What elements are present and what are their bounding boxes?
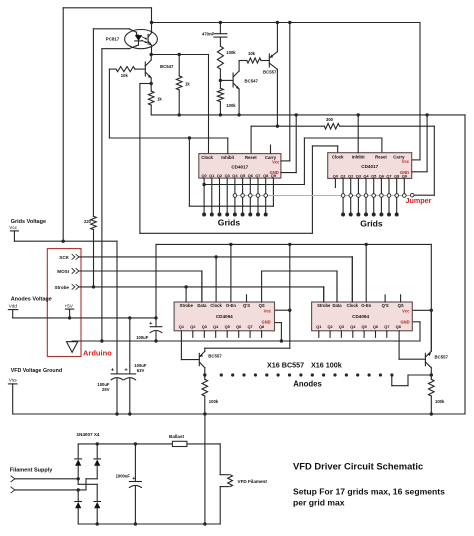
wire Strobe line: [79, 286, 324, 288]
svg-text:100uF: 100uF: [136, 335, 149, 340]
svg-text:Q7: Q7: [255, 173, 260, 178]
wire left CD4094 GND: [275, 322, 282, 324]
wire collector node to clock feed: [151, 54, 208, 56]
svg-text:VFD Filament: VFD Filament: [238, 479, 268, 484]
resistor R 100k lower: [217, 88, 223, 101]
pin no-connect circle: [364, 194, 368, 198]
IC U5 CD4094 right: [312, 302, 413, 331]
svg-text:Q9: Q9: [271, 173, 277, 178]
svg-text:O-En: O-En: [226, 303, 236, 308]
capacitor C5 1000uF: [134, 444, 136, 482]
wire grids voltage feed: [14, 240, 117, 242]
optocoupler U1 PC817: [125, 29, 158, 48]
svg-text:Reset: Reset: [375, 155, 387, 160]
pin no-connect circle: [372, 194, 376, 198]
svg-text:Anodes Voltage: Anodes Voltage: [11, 297, 52, 303]
svg-text:GND: GND: [400, 319, 409, 324]
svg-text:Q5: Q5: [361, 324, 367, 329]
wire right CD4094 top pins: [323, 287, 325, 302]
svg-text:100uF: 100uF: [134, 363, 147, 368]
wire MOSI line: [79, 270, 202, 272]
svg-text:63V: 63V: [137, 368, 145, 373]
resistor Ballast: [172, 441, 187, 446]
svg-text:100k: 100k: [226, 103, 236, 108]
wire reset line left CD4017: [251, 125, 324, 127]
svg-text:Strobe: Strobe: [180, 303, 194, 308]
svg-text:BC557: BC557: [263, 70, 277, 75]
svg-text:CD4017: CD4017: [231, 165, 248, 170]
svg-text:Q4: Q4: [363, 173, 369, 178]
svg-text:Vdd: Vdd: [9, 304, 18, 309]
svg-text:Q5: Q5: [371, 173, 377, 178]
svg-text:Q4: Q4: [350, 324, 356, 329]
wire Q9 feedback: [188, 138, 190, 206]
wire emitter feed to right CD4017 clock: [139, 84, 141, 234]
svg-text:Q3: Q3: [225, 173, 231, 178]
wire right CD4017 GND: [426, 115, 428, 172]
diode D2: [96, 444, 98, 459]
resistor R 220: [91, 216, 97, 229]
svg-text:Q2: Q2: [348, 173, 354, 178]
node inhibit-Q9 junction: [188, 136, 191, 139]
wire top-left supply loop: [63, 7, 151, 9]
svg-text:Q8: Q8: [394, 173, 400, 178]
IC Arduino box: [47, 249, 81, 357]
wire inhibit line: [109, 137, 227, 139]
node mid rail junctions: [178, 113, 181, 116]
svg-text:Q9: Q9: [402, 173, 408, 178]
svg-text:Q1: Q1: [340, 173, 346, 178]
svg-text:Setup For 17 grids max, 16 seg: Setup For 17 grids max, 16 segments: [293, 486, 445, 496]
svg-text:Q8: Q8: [396, 324, 402, 329]
node divider junction: [219, 79, 222, 82]
svg-text:Q5: Q5: [240, 173, 246, 178]
wire PC817 anode to 220R: [93, 28, 129, 30]
transistor Q5 BC557 right driver: [424, 353, 426, 365]
node bridge rail junctions: [96, 442, 99, 445]
resistor R 300: [324, 123, 339, 129]
svg-text:Vcc: Vcc: [402, 309, 410, 314]
svg-text:220: 220: [84, 219, 92, 224]
wire Arduino ground bus: [72, 340, 420, 342]
ground symbol Arduino: [67, 342, 78, 353]
transistor Q3 BC557: [268, 54, 270, 67]
transistor Q2 BC547: [220, 79, 233, 81]
inductor VFD filament coil: [228, 475, 233, 487]
svg-text:Q7: Q7: [384, 324, 389, 329]
wire SCK line: [79, 256, 353, 258]
capacitor C4 100uF logic: [155, 318, 157, 327]
svg-text:Q6: Q6: [236, 324, 242, 329]
wire PC817 cathode to Arduino ground: [102, 48, 129, 50]
svg-text:Q1: Q1: [209, 173, 215, 178]
wire anode bus jog: [391, 375, 393, 386]
wire right CD4017 grid outputs: [342, 178, 344, 214]
IC U3 CD4017 right: [328, 153, 412, 179]
svg-text:Q2: Q2: [190, 324, 196, 329]
wire Q1 to BC557 base: [180, 331, 182, 360]
node bottom rail junctions: [96, 522, 99, 525]
wire cascade QS to right Data: [261, 271, 263, 302]
svg-text:Q4: Q4: [213, 324, 219, 329]
pin no-connect circle: [233, 194, 237, 198]
svg-text:Q6: Q6: [248, 173, 254, 178]
pin no-connect circle: [264, 194, 268, 198]
svg-text:Q8: Q8: [259, 324, 265, 329]
wire Vss rail: [13, 413, 465, 415]
wire jumper riser: [433, 126, 435, 195]
pin no-connect circle: [357, 194, 361, 198]
svg-text:Ballast: Ballast: [169, 434, 185, 439]
svg-text:25V: 25V: [102, 387, 110, 392]
wire right CD4094 output stubs: [318, 331, 320, 338]
pin no-connect circle: [403, 194, 407, 198]
svg-text:MOSI: MOSI: [57, 269, 69, 274]
wire 10k to inhibit line: [108, 69, 110, 138]
svg-text:Clock: Clock: [332, 155, 344, 160]
node left collector junction: [203, 373, 206, 376]
wire Q0 to right reset: [202, 183, 205, 186]
wire bridge bottom rail: [78, 523, 220, 525]
svg-text:BC547: BC547: [245, 78, 259, 83]
wire jumper select line: [235, 195, 412, 197]
node right collector junction: [430, 373, 433, 376]
wire BC557 emitter feed: [205, 347, 290, 349]
svg-text:Q7: Q7: [247, 324, 252, 329]
capacitor C2 100uF 25V: [111, 373, 123, 375]
svg-text:Q1: Q1: [316, 324, 322, 329]
node 5V rail junctions: [229, 243, 232, 246]
wire right CD4017 inhibit: [357, 115, 359, 153]
wire PC817 collector to rail: [151, 23, 153, 31]
resistor R 10k base: [116, 67, 135, 72]
node cap 63V junction: [128, 316, 131, 319]
svg-text:1k: 1k: [157, 96, 162, 101]
wire left CD4017 Vcc: [289, 23, 291, 161]
node left strobe tap: [184, 285, 187, 288]
svg-text:Q3: Q3: [339, 324, 345, 329]
node left clock tap: [214, 255, 217, 258]
svg-text:Vcc: Vcc: [272, 159, 280, 164]
svg-text:per grid max: per grid max: [293, 498, 345, 508]
svg-text:Vcc: Vcc: [402, 159, 410, 164]
node right Vcc junction: [430, 309, 433, 312]
wire right edge rail: [464, 115, 466, 414]
node AC junctions: [77, 477, 80, 480]
wire AC input 2: [15, 489, 86, 491]
pin no-connect circle: [395, 194, 399, 198]
svg-text:Q6: Q6: [379, 173, 385, 178]
svg-text:Q6: Q6: [373, 324, 379, 329]
wire right CD4017 Q9 pin: [403, 178, 405, 193]
svg-text:100k: 100k: [209, 399, 219, 404]
svg-text:CD4094: CD4094: [352, 314, 369, 319]
svg-text:Inhibit: Inhibit: [352, 155, 365, 160]
svg-text:Grids: Grids: [218, 218, 241, 228]
wire carry stub: [270, 145, 272, 154]
svg-text:BC557: BC557: [435, 355, 449, 360]
svg-text:QS: QS: [259, 303, 265, 308]
wire right CD4017 Vcc riser: [419, 23, 421, 160]
transistor Q4 BC557 left driver: [198, 353, 200, 365]
wire filament feed: [219, 444, 221, 475]
svg-text:VFD Driver Circuit Schematic: VFD Driver Circuit Schematic: [293, 461, 423, 472]
wire Vdd line: [13, 317, 156, 319]
svg-text:Q1: Q1: [179, 324, 185, 329]
svg-text:CD4094: CD4094: [216, 314, 233, 319]
svg-text:Strobe: Strobe: [317, 303, 331, 308]
svg-text:Vss: Vss: [9, 377, 17, 382]
wire left CD4094 top pins: [185, 287, 187, 302]
node gnd bus junctions: [100, 339, 103, 342]
pin no-connect circle: [256, 194, 260, 198]
svg-text:Data: Data: [332, 303, 342, 308]
node left Vcc junction: [288, 309, 291, 312]
capacitor C3 100uF 63V: [129, 318, 131, 374]
wire left CD4094 output stubs: [192, 331, 194, 338]
svg-text:SCK: SCK: [59, 255, 69, 260]
wire grids voltage drop to Vss cap: [116, 241, 118, 374]
wire top Vcc rail: [152, 22, 421, 24]
diode D4: [94, 501, 101, 503]
resistor R 1k emitter: [150, 84, 152, 92]
svg-text:300: 300: [326, 117, 334, 122]
svg-text:PC817: PC817: [106, 37, 120, 42]
resistor R 1k pullup: [178, 55, 180, 76]
resistor R 100k right pulldown: [430, 375, 432, 379]
svg-text:Q8: Q8: [263, 173, 269, 178]
svg-text:Anodes: Anodes: [293, 380, 322, 389]
wire right CD4094 Vcc: [412, 309, 431, 311]
transistor Q1 BC547: [144, 62, 146, 76]
svg-text:Q2: Q2: [217, 173, 223, 178]
svg-text:O-En: O-En: [361, 303, 371, 308]
node 220R strobe junction: [92, 285, 95, 288]
svg-text:10k: 10k: [248, 51, 256, 56]
wire Vss to bridge negative: [204, 414, 206, 524]
node emitter junction: [150, 82, 153, 85]
capacitor C1 470nF: [219, 23, 221, 34]
svg-text:Clock: Clock: [201, 155, 213, 160]
svg-text:Filament Supply: Filament Supply: [10, 468, 53, 474]
IC U4 CD4094 left: [174, 302, 274, 331]
node 5V drop junction: [154, 316, 157, 319]
svg-text:Jumper: Jumper: [406, 196, 432, 205]
svg-text:Q'S: Q'S: [243, 303, 250, 308]
wire right CD4017 Q0 stub: [334, 178, 336, 187]
pin jumper terminal circle: [410, 193, 414, 197]
svg-text:Reset: Reset: [245, 155, 257, 160]
wire left CD4094 Vcc: [275, 309, 290, 311]
svg-text:100k: 100k: [226, 50, 236, 55]
svg-text:Clock: Clock: [347, 303, 359, 308]
svg-text:Strobe: Strobe: [54, 285, 69, 290]
svg-text:VFD Voltage Ground: VFD Voltage Ground: [11, 368, 62, 374]
pin no-connect circle: [341, 194, 345, 198]
svg-text:Data: Data: [197, 303, 207, 308]
node outer loop junction: [62, 240, 65, 243]
pin no-connect circle: [249, 194, 253, 198]
svg-text:1N4007 X4: 1N4007 X4: [77, 432, 100, 437]
diode D1: [77, 444, 79, 459]
wire mid rail: [151, 114, 465, 116]
svg-text:Q4: Q4: [232, 173, 238, 178]
node BC557 collector on reset line: [276, 125, 279, 128]
pin no-connect circle: [387, 194, 391, 198]
wire filament return: [220, 486, 229, 488]
svg-text:Vcc: Vcc: [9, 225, 17, 230]
svg-text:BC547: BC547: [160, 64, 174, 69]
svg-text:100k: 100k: [435, 399, 445, 404]
svg-text:Q0: Q0: [333, 173, 338, 178]
node collector junction: [150, 53, 153, 56]
wire left CD4017 GND: [295, 115, 297, 173]
pin no-connect circle: [380, 194, 384, 198]
node top rail junction: [150, 21, 153, 24]
node +5V junction: [68, 316, 71, 319]
svg-text:X16 BC557: X16 BC557: [267, 360, 304, 369]
svg-text:Q'S: Q'S: [382, 303, 389, 308]
svg-text:10k: 10k: [121, 73, 129, 78]
svg-text:Clock: Clock: [210, 303, 222, 308]
svg-text:Q2: Q2: [327, 324, 333, 329]
svg-text:100uF: 100uF: [97, 382, 110, 387]
wire left CD4017 clock drop: [208, 55, 210, 154]
svg-text:1k: 1k: [185, 82, 190, 87]
svg-text:Arduino: Arduino: [83, 349, 112, 358]
svg-text:Q7: Q7: [386, 173, 391, 178]
svg-text:+5V: +5V: [64, 303, 73, 308]
svg-text:Q3: Q3: [356, 173, 362, 178]
svg-text:CD4017: CD4017: [361, 164, 378, 169]
svg-text:Grids Voltage: Grids Voltage: [11, 219, 46, 225]
svg-text:QS: QS: [398, 303, 404, 308]
svg-text:470nF: 470nF: [202, 31, 215, 36]
node 1k top: [178, 53, 181, 56]
resistor R 100k upper: [217, 46, 223, 69]
wire right CD4094 gnd riser: [419, 322, 421, 341]
svg-text:Grids: Grids: [360, 219, 383, 229]
wire emitter node branch: [140, 83, 151, 85]
svg-text:Inhibit: Inhibit: [221, 155, 234, 160]
node Vss rail junctions: [115, 412, 118, 415]
resistor R 100k left pulldown: [204, 375, 206, 379]
wire AC input 1: [15, 478, 78, 480]
svg-text:Q5: Q5: [225, 324, 231, 329]
wire left CD4017 grid outputs: [203, 178, 205, 214]
svg-text:Vcc: Vcc: [264, 309, 272, 314]
wire PC817 emitter node: [151, 47, 153, 54]
wire 5V rail: [155, 244, 157, 318]
svg-text:Q0: Q0: [201, 173, 206, 178]
pin no-connect circle: [241, 194, 245, 198]
diode D3: [77, 490, 79, 502]
svg-text:+: +: [132, 476, 135, 482]
IC U2 CD4017 left: [199, 154, 281, 179]
wire bridge top rail: [78, 443, 172, 445]
svg-text:1000uF: 1000uF: [116, 473, 131, 478]
svg-text:X16 100k: X16 100k: [311, 360, 342, 369]
node anode bus dots: [220, 373, 223, 376]
wire Q8 to right BC557 base: [398, 331, 400, 359]
svg-text:BC557: BC557: [208, 353, 222, 358]
svg-text:Q3: Q3: [202, 324, 208, 329]
wire bridge crossover: [77, 479, 79, 485]
resistor R 10k osc: [247, 58, 261, 63]
pin no-connect circle: [349, 194, 353, 198]
